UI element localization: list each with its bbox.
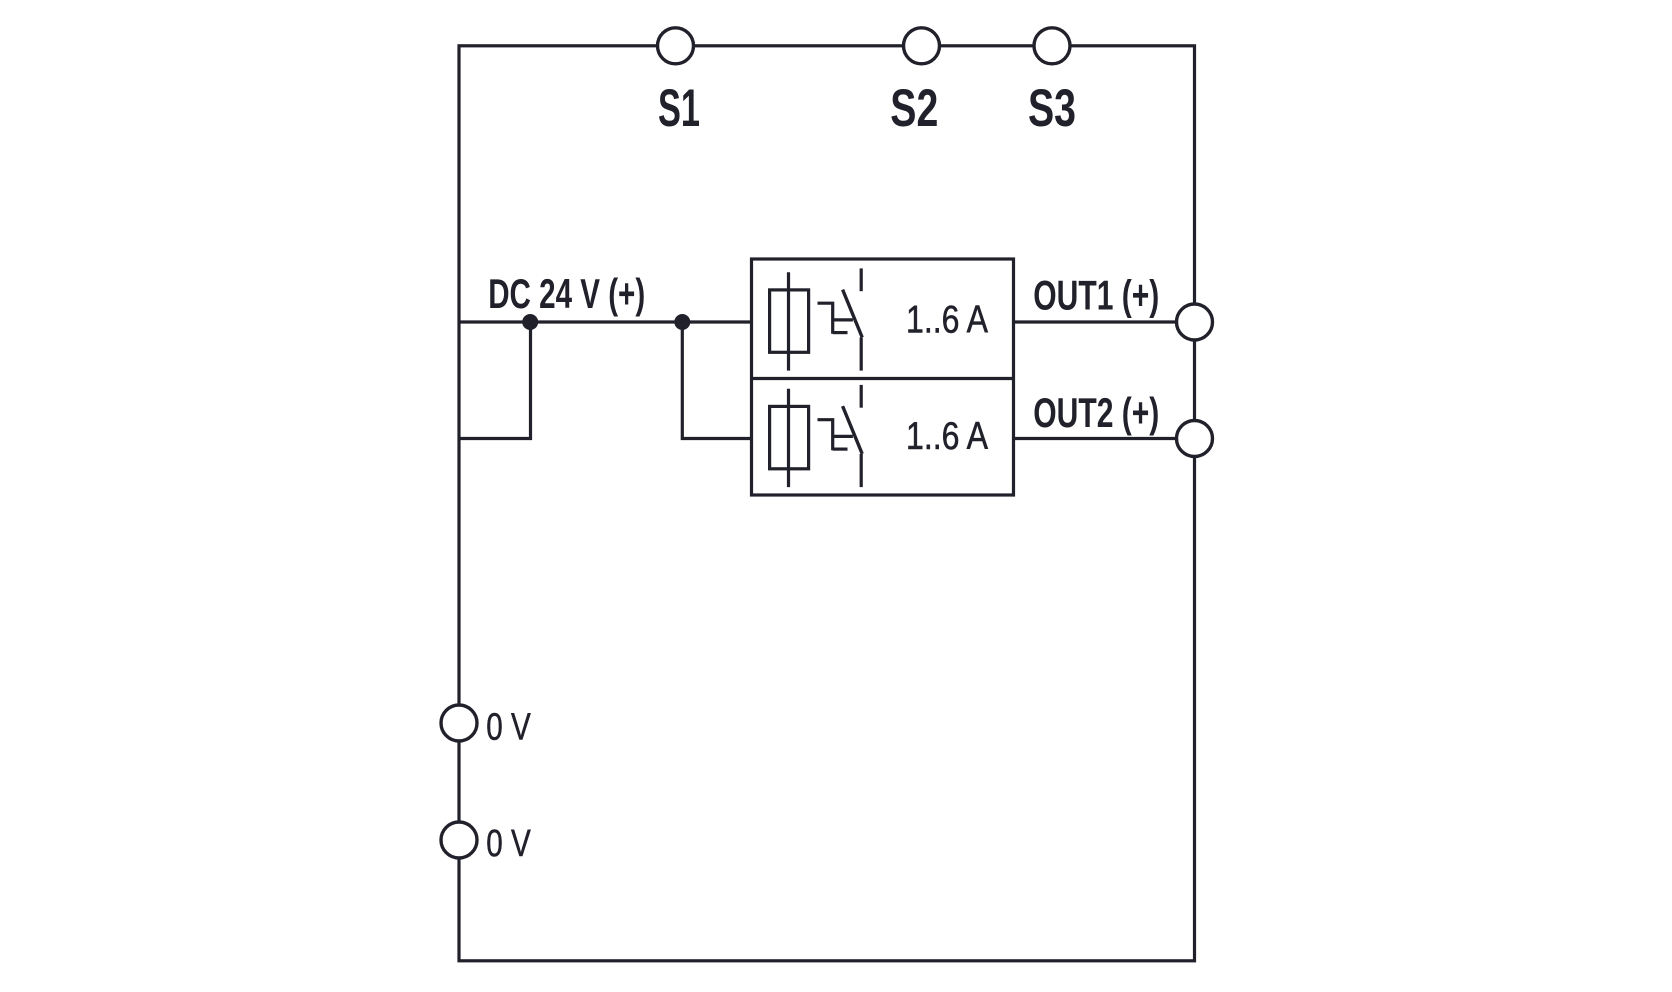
breaker contact Q1: lower lead	[860, 337, 863, 370]
terminal 0V lower	[441, 822, 477, 858]
breaker contact Q1: fixed contact tick	[860, 268, 863, 291]
fuse F2 lead	[787, 389, 790, 487]
svg-text:S2: S2	[890, 79, 938, 138]
svg-text:1..6 A: 1..6 A	[906, 298, 988, 341]
breaker contact Q1: blade	[843, 290, 863, 338]
module outline	[459, 46, 1195, 961]
fuse F2 body	[770, 406, 809, 468]
breaker contact Q2: blade	[843, 406, 863, 454]
terminal S1	[658, 28, 694, 64]
junction B	[674, 314, 690, 330]
terminal S2	[904, 28, 940, 64]
junction A	[522, 314, 538, 330]
breaker Q1 latch middle bar	[833, 318, 853, 321]
terminal OUT1	[1177, 304, 1213, 340]
svg-text:DC 24 V (+): DC 24 V (+)	[488, 270, 645, 317]
terminal OUT2	[1177, 421, 1213, 457]
breaker Q1 latch bottom bar	[833, 331, 848, 334]
breaker Q2 trip latch	[818, 420, 833, 451]
breaker Q1 trip latch	[818, 303, 833, 334]
breaker Q2 latch bottom bar	[833, 448, 848, 451]
wire: OUT1 output	[1014, 320, 1195, 323]
wire: OUT2 output	[1014, 437, 1195, 440]
terminal 0V upper	[441, 705, 477, 741]
svg-text:1..6 A: 1..6 A	[906, 415, 988, 458]
fuse F1 body	[770, 290, 809, 352]
breaker contact Q2: fixed contact tick	[860, 385, 863, 408]
svg-text:0 V: 0 V	[486, 706, 531, 748]
svg-text:S3: S3	[1028, 79, 1076, 138]
electronic circuit breaker module box	[752, 259, 1014, 495]
terminal S3	[1034, 28, 1070, 64]
breaker Q2 latch middle bar	[833, 435, 853, 438]
wire: branch from junction B down to channel 2 input	[682, 322, 751, 439]
svg-text:S1: S1	[658, 79, 700, 138]
svg-text:OUT2 (+): OUT2 (+)	[1033, 389, 1159, 436]
svg-text:0 V: 0 V	[486, 823, 531, 865]
wire: DC 24 V (+) input rail	[459, 320, 752, 323]
fuse F1 lead	[787, 272, 790, 370]
svg-text:OUT1 (+): OUT1 (+)	[1033, 272, 1159, 319]
divider between channel 1 and channel 2	[752, 377, 1014, 380]
wire: branch from junction A down and left to outline	[459, 322, 531, 439]
breaker contact Q2: lower lead	[860, 454, 863, 487]
